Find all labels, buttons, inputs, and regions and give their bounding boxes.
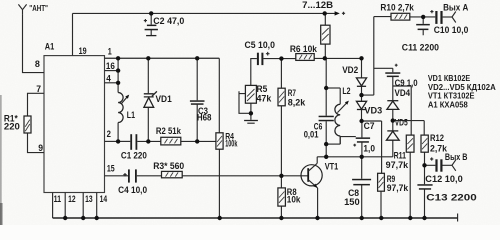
svg-text:А1: А1 — [45, 41, 55, 51]
wire pin bus to L1 — [117, 58, 119, 92]
svg-text:Вых А: Вых А — [443, 3, 469, 13]
node tank bottom — [324, 142, 328, 146]
diode VD2 — [356, 78, 366, 86]
wire pin 19 riser — [72, 13, 74, 55]
wire VD5 drop from row — [392, 140, 394, 157]
diode VD5 — [386, 131, 399, 140]
wire VD1 column top — [147, 58, 149, 93]
svg-text:8: 8 — [35, 59, 40, 69]
capacitor C4 — [123, 169, 137, 182]
wire VD4 node to R12 — [393, 121, 424, 136]
L2 variable arrow — [337, 102, 347, 112]
varicap VD1 — [144, 91, 157, 107]
node VD2 top — [359, 56, 363, 60]
wire R11 bottom — [409, 152, 411, 218]
resistor R11 — [406, 135, 414, 152]
node rail pin14 — [95, 216, 99, 220]
wire C10 to terminal — [443, 16, 453, 18]
node VD2-VD3 — [359, 93, 363, 97]
wire C5 left lead to R5 — [251, 59, 257, 86]
svg-text:16: 16 — [106, 61, 115, 71]
wire VD4 to VD5 — [392, 110, 394, 131]
svg-text:19: 19 — [79, 46, 87, 56]
wire C3 column bottom — [196, 105, 198, 142]
svg-text:R2 51k: R2 51k — [156, 126, 182, 136]
wire R10 right to C10 — [410, 16, 436, 18]
node tank collector row — [324, 155, 328, 159]
svg-text:100k: 100k — [225, 138, 238, 148]
svg-text:8,2k: 8,2k — [288, 97, 306, 107]
node pin1 bus — [116, 56, 120, 60]
transistor VT1 — [301, 157, 322, 188]
resistor unlabeled — [321, 25, 330, 44]
svg-text:1,0: 1,0 — [363, 143, 375, 153]
resistor R6 — [296, 54, 314, 61]
svg-text:R11: R11 — [394, 150, 407, 160]
capacitor C11 — [416, 24, 430, 30]
wire C3 column top — [196, 58, 198, 100]
wire R3 to VT1 base node — [182, 175, 281, 177]
wire C9 branch to R11 — [393, 86, 411, 135]
node C3 top — [195, 56, 199, 60]
rail end tick — [457, 214, 459, 222]
wire C7 bottom lead — [361, 142, 363, 157]
wire top +12V rail — [73, 12, 336, 14]
diode VD3 — [356, 101, 366, 109]
svg-text:R10 2,7k: R10 2,7k — [380, 2, 414, 12]
wire R5 bottom lead — [250, 103, 252, 120]
wire rail C5right to VD2 column — [263, 57, 361, 59]
inductor L1 — [118, 93, 123, 123]
node power column on top rail — [323, 11, 327, 15]
svg-text:47k: 47k — [257, 93, 273, 103]
wire C8 leads — [361, 157, 363, 218]
wire R2 to R4 — [181, 140, 216, 142]
svg-text:14: 14 — [100, 194, 108, 204]
svg-text:С10 10,0: С10 10,0 — [434, 25, 469, 35]
node rail pin12 — [63, 216, 67, 220]
wire C2 top lead — [150, 13, 152, 24]
wire pin 7 to R1 — [28, 93, 45, 116]
node rail R9 — [379, 216, 383, 220]
svg-text:L2: L2 — [342, 86, 350, 96]
wire branch to C9 — [374, 68, 393, 72]
svg-text:150: 150 — [344, 197, 360, 207]
wire C13 leads — [424, 165, 426, 218]
resistor R3 — [162, 171, 183, 177]
wire base node to VT1 — [281, 175, 308, 177]
svg-text:А1 КХА058: А1 КХА058 — [428, 101, 468, 110]
svg-text:11: 11 — [54, 194, 62, 204]
node C3 bottom — [195, 139, 199, 143]
resistor R7 — [278, 88, 285, 106]
wire C4 to R3 — [137, 175, 162, 177]
ground bar R5 — [244, 120, 258, 122]
svg-text:9: 9 — [38, 143, 43, 153]
svg-text:VD2: VD2 — [342, 65, 358, 75]
wire jog tank to C7 top — [340, 137, 356, 145]
wire pin 15 row to C4 — [105, 175, 129, 177]
diode VD4 — [387, 101, 399, 110]
svg-text:С2 47,0: С2 47,0 — [153, 16, 184, 26]
node C2 on top rail — [149, 11, 153, 15]
resistor R8 — [278, 188, 286, 206]
svg-text:С1 220: С1 220 — [121, 151, 147, 161]
wire R9 bottom — [380, 191, 382, 218]
pin 14 stub — [96, 193, 98, 219]
wire R8 leads — [280, 176, 282, 218]
svg-text:4: 4 — [106, 73, 111, 83]
svg-text:1: 1 — [108, 47, 112, 57]
node VD1 top — [146, 56, 150, 60]
svg-text:97,7k: 97,7k — [387, 183, 409, 193]
ground bar C2 — [146, 35, 156, 37]
ground bar R5 small — [247, 122, 254, 124]
wire C6 branch — [325, 88, 327, 144]
node VD4-VD5 — [391, 118, 395, 122]
L1 variable arrow — [121, 96, 127, 104]
wire VD1 column bottom — [147, 107, 149, 141]
wire unlabeled resistor column — [324, 13, 326, 58]
svg-text:15: 15 — [107, 163, 115, 173]
capacitor C8 — [352, 179, 371, 186]
node VT1 base row — [279, 174, 283, 178]
resistor R12 — [421, 135, 428, 152]
svg-text:R12: R12 — [430, 133, 444, 143]
capacitor C1 — [130, 134, 137, 150]
wire R7 top lead — [280, 59, 282, 89]
svg-text:VT1: VT1 — [325, 161, 339, 171]
pin 13 stub — [82, 193, 84, 219]
node pin16 — [116, 68, 120, 72]
node rail R4 — [218, 216, 222, 220]
svg-text:12: 12 — [68, 194, 76, 204]
node R6-Rcol — [323, 56, 327, 60]
wire rail y58 pin1 to VD2 — [105, 57, 220, 59]
svg-text:97,7k: 97,7k — [386, 160, 409, 170]
wire C7 top lead — [361, 121, 363, 137]
node R5 wiper — [249, 111, 253, 115]
node C5-R6-R7 — [279, 56, 283, 60]
wire C11 leads — [422, 17, 424, 35]
resistor R2 — [161, 137, 181, 145]
svg-text:7: 7 — [36, 84, 41, 94]
svg-text:VD2...VD5 КД102А: VD2...VD5 КД102А — [428, 83, 496, 92]
node R10-C10-C11 — [421, 15, 425, 19]
wire R5 wiper — [239, 91, 251, 113]
node rail R8 — [279, 216, 283, 220]
node VD3 bottom — [359, 119, 363, 123]
svg-text:С9 1,0: С9 1,0 — [395, 78, 418, 88]
wire R12 bottom — [424, 152, 426, 165]
antenna symbol — [18, 4, 26, 15]
capacitor C7 — [353, 137, 370, 146]
svg-text:С4 10,0: С4 10,0 — [118, 185, 147, 195]
wire pin 16 stub — [105, 70, 119, 72]
node L1 bottom — [116, 139, 120, 143]
node pin4 — [116, 81, 120, 85]
wire VD2VD3 node to R10 column — [362, 17, 374, 96]
wire tank top — [325, 58, 327, 88]
svg-text:7...12В: 7...12В — [302, 0, 334, 10]
wire R10 left lead — [374, 16, 391, 18]
svg-text:VD3: VD3 — [364, 105, 382, 115]
inductor L2 — [335, 104, 340, 136]
wire L2 branch — [339, 88, 341, 144]
pin 11 stub — [52, 193, 54, 219]
wire VD3 node to R9 column — [362, 121, 382, 173]
svg-text:С7: С7 — [364, 121, 375, 131]
wire VD3 bottom node — [361, 110, 363, 121]
svg-text:Н68: Н68 — [197, 112, 212, 122]
node VD1 bottom — [146, 139, 150, 143]
node rail C8 — [360, 216, 364, 220]
pin 12 stub — [64, 193, 66, 219]
terminal Vyh A — [452, 12, 456, 23]
plus sign power — [342, 12, 345, 15]
capacitor C3 — [190, 100, 205, 105]
terminal Vyh B — [452, 160, 456, 171]
node rail pin13 — [81, 216, 85, 220]
node rail C13 — [422, 216, 426, 220]
svg-text:С5 10,0: С5 10,0 — [245, 40, 275, 50]
svg-text:2: 2 — [107, 129, 111, 139]
node tank top — [324, 86, 328, 90]
node rail R11 — [408, 216, 412, 220]
wire L1 bottom to node — [117, 123, 119, 142]
resistor R4 — [216, 133, 223, 149]
wire tank top split — [326, 87, 340, 89]
scan artifact left edge — [0, 95, 3, 225]
wire C1 to VD1 node — [137, 140, 161, 142]
svg-text:Вых В: Вых В — [445, 152, 468, 162]
bottom ground rail — [53, 217, 458, 219]
wire tank to collector row — [325, 144, 327, 157]
resistor R10 — [391, 13, 410, 20]
capacitor C5 — [257, 52, 270, 65]
wire pin 4 stub — [105, 82, 119, 84]
svg-text:VT1 КТ3102Е: VT1 КТ3102Е — [428, 92, 475, 101]
wire C12 row — [425, 164, 453, 166]
wire R1 to pin 9 — [28, 133, 45, 153]
wire VD2 top lead — [361, 58, 363, 78]
capacitor C2 — [144, 19, 158, 30]
svg-text:10k: 10k — [287, 194, 301, 204]
resistor R1 — [24, 116, 31, 133]
wire pin2 node to C1 — [118, 140, 130, 142]
wire pin 2 stub — [105, 140, 119, 142]
power arrow terminal — [335, 11, 340, 15]
capacitor C10 — [430, 10, 442, 24]
potentiometer R5 — [245, 85, 256, 103]
wire C2 bottom to ground — [150, 30, 152, 35]
svg-text:С11 2200: С11 2200 — [402, 42, 439, 52]
svg-text:"АНТ": "АНТ" — [29, 4, 48, 13]
wire tank bottom join — [326, 143, 340, 145]
svg-text:L1: L1 — [127, 110, 135, 120]
wire C9 bottom to VD4 — [392, 77, 394, 101]
resistor R9 — [378, 173, 385, 191]
node R12-C12-C13 — [422, 163, 426, 167]
capacitor C9 — [385, 64, 400, 77]
svg-text:13: 13 — [85, 194, 93, 204]
svg-text:VD1: VD1 — [156, 94, 172, 104]
svg-text:220: 220 — [4, 121, 20, 131]
node C7 bottom row — [360, 155, 364, 159]
VT1 emitter column — [317, 188, 319, 218]
IC A1 box — [44, 56, 105, 193]
svg-text:R3* 560: R3* 560 — [153, 161, 184, 171]
wire R4 bottom to rail — [218, 149, 220, 218]
wire VD2 to VD3 — [361, 87, 363, 102]
wire collector row — [317, 156, 393, 158]
capacitor C6 — [319, 116, 334, 122]
capacitor C12 — [430, 157, 442, 171]
wire antenna to pin 8 — [23, 15, 45, 73]
wire R7 bottom to base row — [280, 106, 282, 176]
svg-text:С13 2200: С13 2200 — [426, 193, 476, 203]
svg-text:С12 10,0: С12 10,0 — [425, 174, 462, 184]
svg-text:VD4: VD4 — [395, 88, 411, 98]
svg-text:R6 10k: R6 10k — [290, 44, 318, 54]
svg-text:VD1 КВ102Е: VD1 КВ102Е — [428, 74, 471, 83]
wire rail R4 drop — [218, 58, 220, 133]
capacitor C13 — [417, 184, 432, 190]
svg-text:0,01: 0,01 — [304, 130, 319, 140]
node rail VT1 emitter — [315, 216, 319, 220]
svg-text:VD5: VD5 — [395, 117, 408, 127]
